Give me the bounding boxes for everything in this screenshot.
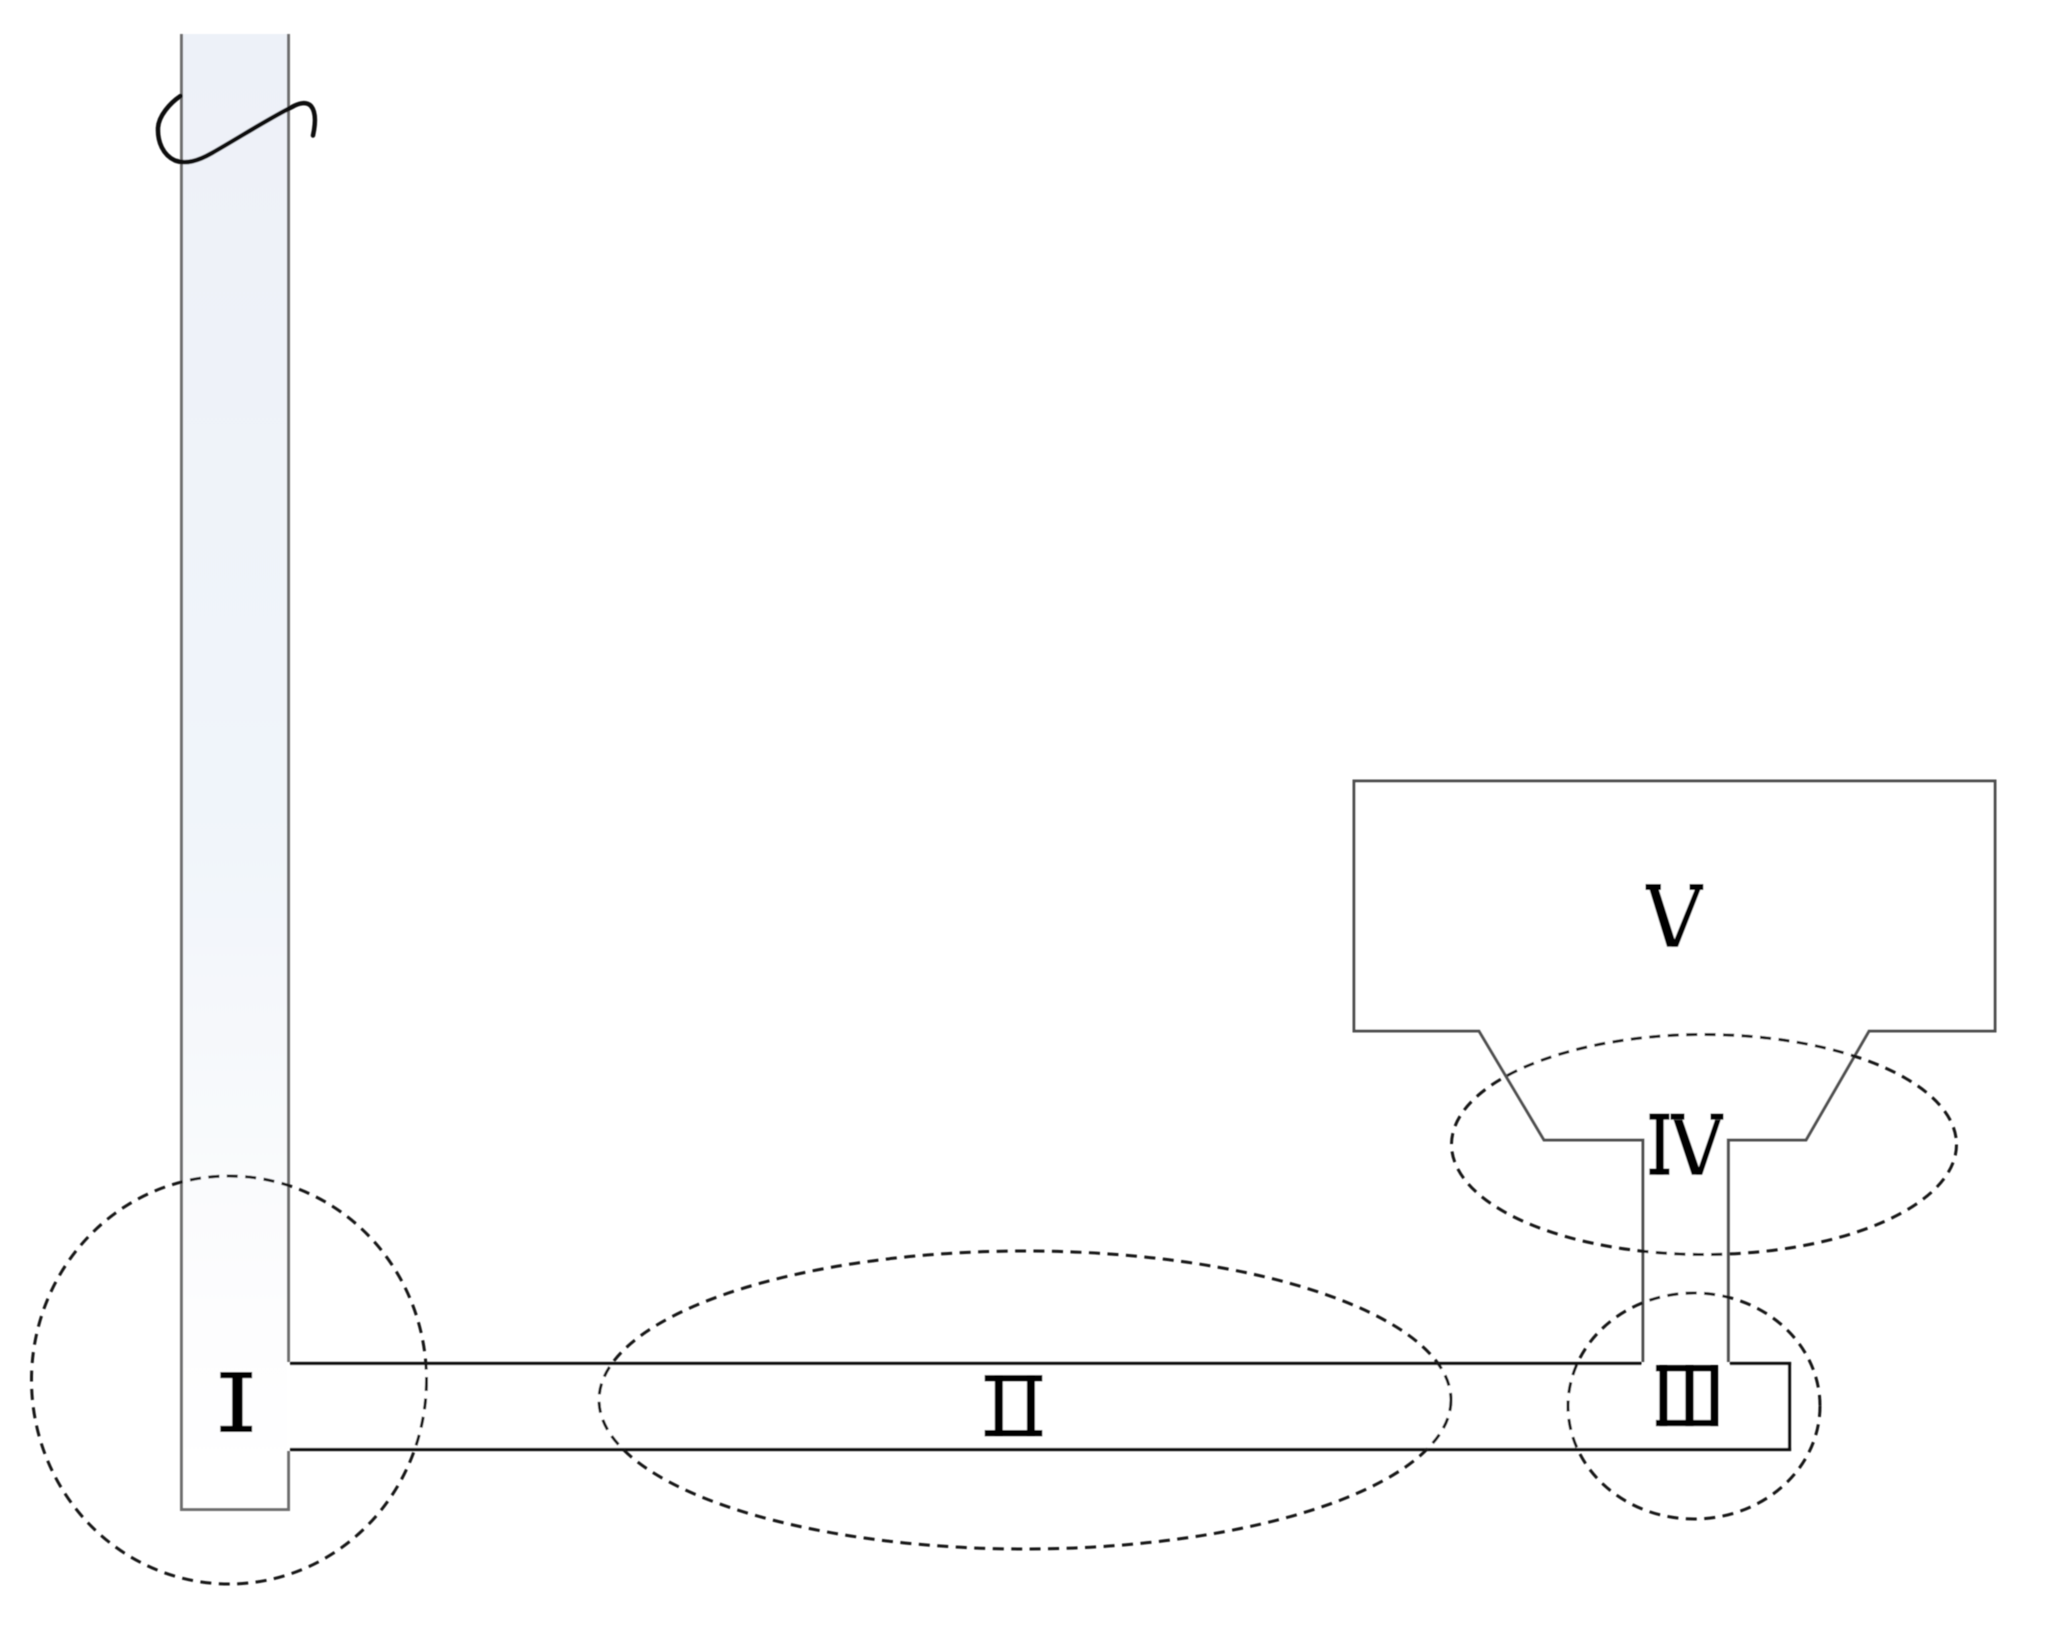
column (vertical rod) fill bbox=[183, 34, 287, 1510]
column bottom cap bbox=[180, 1508, 290, 1511]
column right edge upper segment bbox=[287, 34, 290, 1362]
label IV (roman numeral four) bbox=[1649, 1114, 1723, 1175]
dashed circle region I bbox=[32, 1176, 427, 1584]
horizontal bar fill bbox=[290, 1365, 1788, 1448]
label V (roman numeral five) bbox=[1646, 884, 1704, 947]
break squiggle bbox=[158, 96, 315, 162]
container V with tapered neck (die/punch shape) bbox=[1354, 781, 1995, 1362]
bar top line left segment bbox=[290, 1362, 1642, 1365]
label III (roman numeral three) bbox=[1656, 1365, 1719, 1426]
column left edge bbox=[180, 34, 183, 1510]
label I (roman numeral one) bbox=[220, 1372, 252, 1432]
column right edge lower segment bbox=[287, 1451, 290, 1510]
dashed ellipse region IV bbox=[1452, 1035, 1957, 1255]
label II (roman numeral two) bbox=[985, 1375, 1043, 1436]
bar bottom line bbox=[290, 1448, 1791, 1451]
bar top line right segment bbox=[1730, 1362, 1791, 1365]
bar right end cap bbox=[1788, 1362, 1791, 1451]
dashed ellipse region II bbox=[599, 1251, 1451, 1549]
dashed circle region III bbox=[1568, 1293, 1820, 1519]
